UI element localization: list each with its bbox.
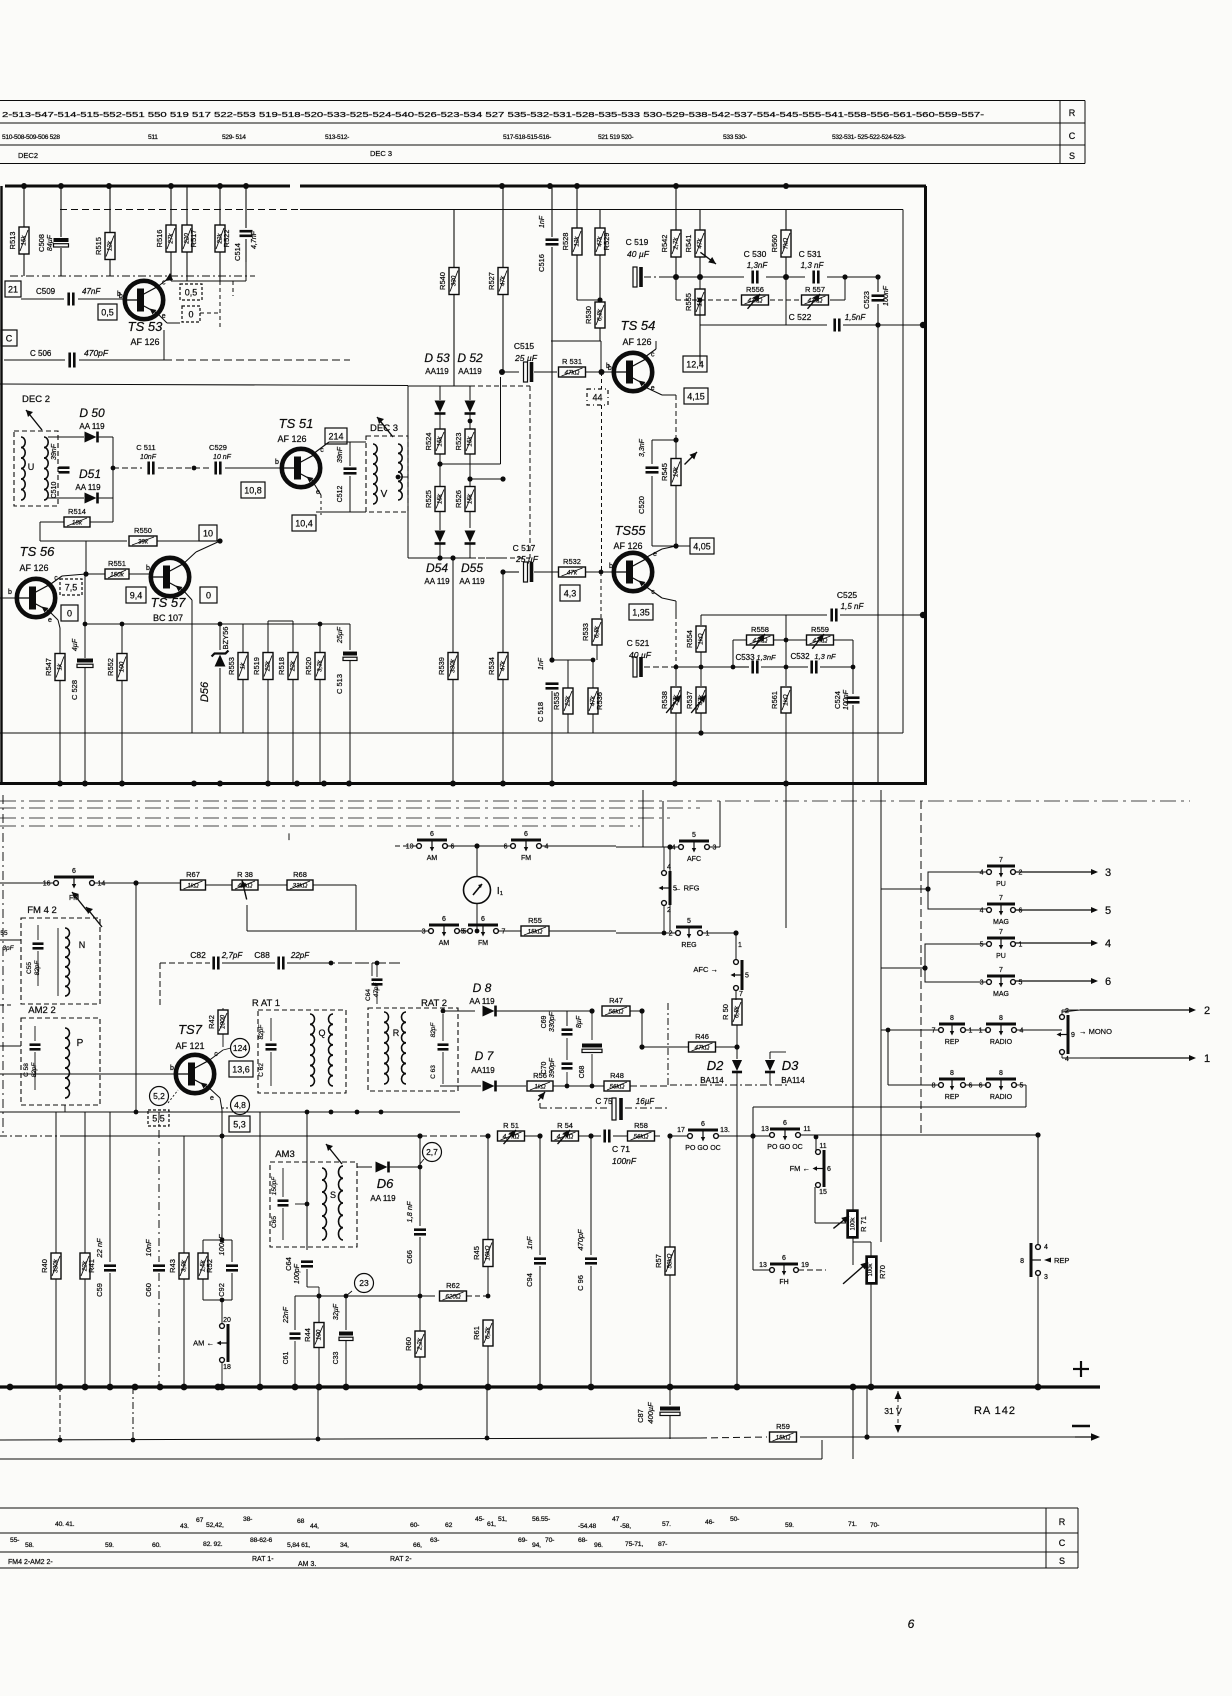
svg-text:R 50: R 50 <box>721 1004 730 1020</box>
svg-text:1nF: 1nF <box>538 657 545 670</box>
transformer RAT1 box <box>258 1010 346 1093</box>
svg-text:R550: R550 <box>134 526 152 535</box>
wire emitter TS51 <box>313 482 321 495</box>
bridge left wire <box>407 386 409 558</box>
junction on plus rail <box>1035 1384 1042 1391</box>
junction on plus rail <box>219 1384 226 1391</box>
wire collector TS57 <box>182 552 196 565</box>
svg-text:6,8k: 6,8k <box>734 1005 741 1018</box>
svg-text:1,5nF: 1,5nF <box>845 313 867 322</box>
svg-text:C520: C520 <box>637 496 646 514</box>
svg-text:40. 41.: 40. 41. <box>55 1521 75 1528</box>
svg-text:R44: R44 <box>303 1328 312 1342</box>
svg-text:470pF: 470pF <box>576 1229 585 1251</box>
svg-text:6: 6 <box>430 831 434 838</box>
svg-text:44,: 44, <box>310 1523 319 1530</box>
resistor R558 <box>747 635 774 645</box>
circle 2,7 <box>423 1143 442 1162</box>
wire x737 to bus <box>736 1085 738 1387</box>
svg-text:C 518: C 518 <box>536 702 545 722</box>
svg-text:6: 6 <box>827 1166 831 1173</box>
svg-text:330pF: 330pF <box>549 1011 556 1032</box>
svg-text:D51: D51 <box>79 467 101 481</box>
svg-text:FM ←: FM ← <box>790 1164 810 1173</box>
coil Q left <box>310 1014 315 1024</box>
svg-text:25 µF: 25 µF <box>514 353 538 363</box>
svg-text:C88: C88 <box>254 950 270 960</box>
svg-text:23: 23 <box>359 1278 369 1288</box>
svg-text:C92: C92 <box>217 1283 226 1297</box>
flag 13,6 <box>229 1061 253 1077</box>
junction on plus rail <box>82 1384 89 1391</box>
svg-text:R519: R519 <box>252 657 261 675</box>
capacitor C33 <box>345 1296 347 1330</box>
svg-text:AF 126: AF 126 <box>622 337 651 347</box>
svg-text:5: 5 <box>980 942 984 949</box>
resistor R531 <box>559 367 586 377</box>
svg-text:100pF: 100pF <box>294 1263 301 1284</box>
svg-text:R515: R515 <box>94 237 103 255</box>
svg-text:22pF: 22pF <box>290 951 310 960</box>
capacitor C63 <box>442 1014 444 1041</box>
arrow out 5 <box>1015 909 1096 911</box>
svg-text:AM ←: AM ← <box>193 1339 214 1348</box>
capacitor C524 <box>852 667 854 694</box>
wire base TS53 <box>21 298 64 300</box>
agc dash line <box>10 275 255 277</box>
svg-text:2: 2 <box>1204 1005 1210 1017</box>
junction on top bus <box>673 183 679 189</box>
resistor R48 <box>604 1081 630 1091</box>
resistor R551 <box>86 573 105 575</box>
svg-text:DEC2: DEC2 <box>18 151 38 160</box>
bridge bottom wire <box>408 557 470 559</box>
svg-text:3: 3 <box>1044 1274 1048 1281</box>
svg-text:67: 67 <box>196 1517 204 1524</box>
svg-text:R534: R534 <box>487 657 496 675</box>
svg-text:R542: R542 <box>660 235 669 253</box>
svg-text:R514: R514 <box>68 507 86 516</box>
svg-text:1kΩ: 1kΩ <box>534 1083 546 1090</box>
wire collector TS55 <box>645 586 662 598</box>
svg-text:7: 7 <box>932 1028 936 1035</box>
svg-text:C 63: C 63 <box>430 1065 437 1079</box>
svg-text:22nF: 22nF <box>283 1306 290 1324</box>
svg-text:8: 8 <box>950 1070 954 1077</box>
svg-text:5,84 61,: 5,84 61, <box>287 1542 310 1549</box>
svg-text:4: 4 <box>672 845 676 852</box>
svg-text:34,: 34, <box>340 1542 349 1549</box>
svg-text:15: 15 <box>819 1189 827 1196</box>
pot R38 <box>232 880 258 890</box>
resistor R46 <box>642 1046 688 1048</box>
svg-text:510-508-509-506 528: 510-508-509-506 528 <box>2 134 60 141</box>
svg-text:15k: 15k <box>467 436 474 447</box>
svg-text:R529: R529 <box>602 233 611 251</box>
transformer DEC3 box <box>366 436 408 512</box>
svg-text:R67: R67 <box>186 870 200 879</box>
svg-text:11: 11 <box>803 1126 810 1133</box>
coil Q right <box>329 1014 334 1024</box>
svg-text:100k: 100k <box>868 1262 874 1276</box>
plus sign <box>1073 1368 1089 1370</box>
svg-text:S: S <box>1059 1556 1065 1566</box>
svg-text:150pF: 150pF <box>271 1176 278 1195</box>
agc wire <box>258 1111 460 1113</box>
svg-text:R528: R528 <box>561 233 570 251</box>
svg-text:2-513-547-514-515-552-551 550: 2-513-547-514-515-552-551 550 519 517 52… <box>2 112 985 119</box>
svg-text:1: 1 <box>969 1028 973 1035</box>
resistor R513 <box>23 186 25 227</box>
vertical net x921 <box>920 801 922 1136</box>
svg-text:44: 44 <box>592 392 602 402</box>
resistor R44 <box>318 1296 320 1322</box>
svg-text:12,4: 12,4 <box>686 359 704 369</box>
resistor R54 <box>552 1131 579 1141</box>
svg-text:513-512-: 513-512- <box>325 134 349 141</box>
svg-text:5: 5 <box>745 973 749 980</box>
svg-text:R59: R59 <box>776 1422 790 1431</box>
svg-text:51,: 51, <box>498 1516 507 1523</box>
svg-text:0,5: 0,5 <box>185 287 198 297</box>
svg-text:16: 16 <box>43 881 51 888</box>
svg-text:59.: 59. <box>105 1542 114 1549</box>
svg-text:N: N <box>79 940 86 950</box>
svg-text:470pF: 470pF <box>84 348 109 358</box>
junction on plus rail <box>157 1384 164 1391</box>
svg-text:C: C <box>6 333 13 343</box>
svg-text:I₁: I₁ <box>497 886 504 897</box>
transistor TS51 <box>282 449 320 487</box>
svg-text:1: 1 <box>979 1028 983 1035</box>
svg-text:5,2: 5,2 <box>153 1091 165 1101</box>
svg-text:→ MONO: → MONO <box>1079 1027 1112 1036</box>
svg-text:39k: 39k <box>138 538 149 545</box>
switch AFC right <box>616 846 679 848</box>
svg-text:C66: C66 <box>405 1250 414 1264</box>
wire emitter TS55 <box>645 549 662 558</box>
resistor R554 <box>696 626 706 652</box>
svg-text:70-: 70- <box>870 1522 879 1529</box>
svg-text:60.: 60. <box>152 1542 161 1549</box>
svg-text:REP: REP <box>1054 1256 1069 1265</box>
switch FH <box>753 1269 770 1271</box>
coil U secondary <box>44 437 48 448</box>
wire D6 row <box>357 1166 372 1168</box>
svg-text:R41: R41 <box>87 1259 96 1273</box>
svg-text:b: b <box>146 565 150 572</box>
transistor TS57 <box>151 558 189 596</box>
svg-text:C515: C515 <box>514 341 535 351</box>
resistor R537 <box>700 667 702 686</box>
junction on plus rail <box>215 1384 222 1391</box>
svg-text:P: P <box>77 1038 84 1049</box>
svg-text:R68: R68 <box>293 870 307 879</box>
upper block bottom ground bus <box>0 782 927 785</box>
svg-text:38-: 38- <box>243 1516 252 1523</box>
resistor R40 <box>55 1112 57 1253</box>
capacitor C87 <box>669 1387 671 1405</box>
wire D52 to R523 <box>469 414 471 429</box>
svg-text:TS55: TS55 <box>614 523 646 538</box>
junction on plus rail <box>417 1384 424 1391</box>
svg-text:R530: R530 <box>584 306 593 324</box>
svg-text:532-531- 525-522-524-523-: 532-531- 525-522-524-523- <box>832 134 906 141</box>
agc wire 2 <box>0 1111 150 1113</box>
wire emitter TS53 <box>156 312 167 323</box>
wire C525 row <box>701 614 786 616</box>
svg-text:R551: R551 <box>108 559 126 568</box>
junction on plus rail <box>868 1384 875 1391</box>
resistor R530 <box>595 302 605 328</box>
svg-text:R43: R43 <box>168 1259 177 1273</box>
svg-text:6,2k: 6,2k <box>485 1326 492 1339</box>
svg-text:17: 17 <box>677 1127 685 1134</box>
vertical net x786 lower <box>785 783 787 928</box>
svg-text:12k: 12k <box>107 240 114 251</box>
svg-text:R554: R554 <box>685 630 694 648</box>
switch MAG 1 <box>987 908 992 913</box>
resistor R529 <box>599 209 601 228</box>
resistor R539 <box>452 558 454 652</box>
resistor R536 <box>588 688 598 714</box>
wire meter to reg <box>476 903 478 927</box>
wire mono 1 <box>1062 1010 1080 1012</box>
transformer FM42 box <box>21 918 100 1004</box>
diode D53 <box>435 401 446 413</box>
svg-text:69-: 69- <box>518 1537 527 1544</box>
svg-text:e: e <box>210 1095 214 1102</box>
svg-text:C87: C87 <box>636 1409 645 1423</box>
svg-text:58kΩ: 58kΩ <box>667 1253 674 1268</box>
vertical net x853 <box>852 783 854 1210</box>
svg-text:MAG: MAG <box>993 919 1009 926</box>
coil U primary <box>21 437 25 448</box>
svg-text:REP: REP <box>945 1039 960 1046</box>
svg-text:330k: 330k <box>53 1258 60 1273</box>
wire D53 to R524 <box>439 414 441 429</box>
svg-text:R 38: R 38 <box>237 870 253 879</box>
junction on top bus <box>106 183 112 189</box>
junction on bottom bus <box>119 781 125 787</box>
svg-text:7: 7 <box>999 929 1003 936</box>
wire collector net TS53 <box>171 280 220 282</box>
pot R71 <box>847 1210 858 1238</box>
capacitor C517 <box>524 562 528 582</box>
svg-text:7: 7 <box>739 991 743 998</box>
svg-text:1kΩ: 1kΩ <box>187 882 199 889</box>
svg-text:10kΩ: 10kΩ <box>485 1245 492 1260</box>
svg-text:C529: C529 <box>209 443 227 452</box>
coil V primary <box>373 444 377 454</box>
node R51 row <box>420 1135 489 1137</box>
svg-text:R560: R560 <box>770 235 779 253</box>
switch RADIO 1 <box>986 1028 991 1033</box>
svg-text:18: 18 <box>223 1364 231 1371</box>
svg-text:88-62-6: 88-62-6 <box>250 1537 272 1544</box>
svg-text:C510: C510 <box>51 482 58 499</box>
junction on plus rail <box>850 1384 857 1391</box>
svg-text:I: I <box>288 832 291 842</box>
svg-text:C 96: C 96 <box>576 1275 585 1291</box>
svg-text:AA119: AA119 <box>425 367 449 376</box>
svg-text:BC 107: BC 107 <box>153 613 183 623</box>
minus arrow <box>1075 1436 1098 1438</box>
svg-text:1: 1 <box>1204 1053 1210 1065</box>
svg-text:RADIO: RADIO <box>990 1094 1013 1101</box>
svg-text:10: 10 <box>203 528 213 538</box>
wire emitter TS56 net <box>84 574 86 624</box>
svg-text:R58: R58 <box>634 1121 648 1130</box>
wire C521 row <box>676 666 733 668</box>
second return line <box>0 1458 822 1460</box>
dash bus line 1 <box>0 800 1190 802</box>
capacitor C68 <box>591 1011 593 1040</box>
junction on top bus <box>21 183 27 189</box>
svg-text:3pF: 3pF <box>2 945 14 952</box>
svg-text:RADIO: RADIO <box>990 1039 1013 1046</box>
svg-text:10nF: 10nF <box>140 454 157 461</box>
wires REP rows <box>888 1029 939 1031</box>
svg-text:330k: 330k <box>450 658 457 673</box>
inner rail right drop <box>902 210 904 734</box>
resistor R532 <box>559 567 586 577</box>
svg-text:1kΩ: 1kΩ <box>783 694 790 706</box>
wire R558 row <box>733 639 746 641</box>
pot R56 <box>527 1081 553 1091</box>
svg-text:b: b <box>275 459 279 466</box>
wire R556 row <box>676 299 740 301</box>
junction on plus rail <box>57 1384 64 1391</box>
switch AM top <box>395 845 416 847</box>
capacitor C60 <box>158 1112 160 1262</box>
wire R555 to base <box>660 363 700 365</box>
wire C520 top <box>652 439 676 441</box>
svg-text:5: 5 <box>692 832 696 839</box>
svg-text:D 53: D 53 <box>424 351 450 365</box>
svg-text:82pF: 82pF <box>258 1024 265 1040</box>
resistor R55 <box>521 926 549 936</box>
plus rail <box>0 1385 1100 1388</box>
svg-text:20: 20 <box>223 1317 231 1324</box>
svg-text:C61: C61 <box>283 1351 290 1364</box>
svg-text:68: 68 <box>297 1518 305 1525</box>
svg-text:8: 8 <box>1020 1258 1024 1265</box>
svg-text:1M: 1M <box>697 297 704 307</box>
svg-text:-54.48: -54.48 <box>578 1523 596 1530</box>
bridge mid tap <box>440 463 501 465</box>
wire D2 D3 <box>670 1084 790 1086</box>
capacitor C508 <box>60 186 62 237</box>
transistor TS7 <box>176 1055 214 1093</box>
svg-text:39nF: 39nF <box>51 443 58 460</box>
svg-text:56kΩ: 56kΩ <box>634 1133 649 1140</box>
svg-text:C 506: C 506 <box>30 349 52 358</box>
capacitor C94 <box>539 1136 541 1255</box>
svg-text:5,3: 5,3 <box>233 1119 246 1129</box>
svg-text:C 521: C 521 <box>627 638 650 648</box>
svg-text:R545: R545 <box>660 463 669 481</box>
svg-text:47k: 47k <box>567 569 578 576</box>
wire collector TS51 <box>313 442 329 454</box>
wire D7 row <box>440 1085 481 1087</box>
resistor R550 <box>86 540 127 542</box>
svg-text:100nF: 100nF <box>217 1234 226 1256</box>
svg-text:3,3nF: 3,3nF <box>639 438 646 457</box>
wire R71 bottom <box>852 1238 854 1265</box>
terminal box 21 <box>5 281 21 297</box>
svg-text:55-: 55- <box>10 1537 19 1544</box>
wire pot drop <box>246 905 248 931</box>
flag 43 <box>560 585 580 601</box>
svg-text:27k: 27k <box>168 233 175 245</box>
svg-text:56.55-: 56.55- <box>532 1516 550 1523</box>
svg-text:AF 126: AF 126 <box>130 337 159 347</box>
svg-text:D55: D55 <box>461 561 483 575</box>
svg-text:58.: 58. <box>25 1542 34 1549</box>
wire to REP switch <box>816 1134 1038 1136</box>
svg-text:TS 57: TS 57 <box>151 595 186 610</box>
svg-text:R518: R518 <box>277 657 286 675</box>
resistor R559 <box>807 635 834 645</box>
svg-text:4µF: 4µF <box>72 638 79 651</box>
svg-text:6: 6 <box>782 1255 786 1262</box>
junction on bottom bus <box>57 781 63 787</box>
svg-text:U: U <box>28 462 35 472</box>
resistor R553 <box>242 624 244 652</box>
svg-text:C 513: C 513 <box>335 674 344 694</box>
svg-text:PU: PU <box>996 881 1006 888</box>
svg-text:RAT 2-: RAT 2- <box>390 1556 412 1563</box>
resistor R540 <box>453 209 455 267</box>
switch AFC low <box>734 960 739 965</box>
svg-text:R523: R523 <box>454 433 463 451</box>
junction on bottom bus <box>217 781 223 787</box>
wire 23 row <box>295 1295 435 1297</box>
wire D8 row <box>443 1010 475 1012</box>
switch FM fh <box>815 1137 817 1150</box>
svg-text:AA 119: AA 119 <box>370 1194 396 1203</box>
wire R528 R529 join <box>577 299 600 301</box>
svg-text:84µF: 84µF <box>47 234 54 251</box>
svg-text:C55: C55 <box>26 962 33 974</box>
flag 0 TS56 <box>61 605 78 621</box>
svg-text:R522: R522 <box>222 230 231 248</box>
junction on top bus <box>168 183 174 189</box>
svg-text:AM3: AM3 <box>275 1149 295 1160</box>
resistor R526 <box>465 487 475 512</box>
svg-text:R520: R520 <box>304 657 313 675</box>
diode D2 <box>736 1047 738 1059</box>
resistor R527 <box>502 186 504 267</box>
svg-text:330: 330 <box>451 275 458 286</box>
svg-text:R525: R525 <box>424 490 433 508</box>
transformer AM3 box <box>270 1162 357 1247</box>
switch RADIO 2 <box>986 1083 991 1088</box>
svg-text:5: 5 <box>461 929 465 936</box>
wire C512 bottom <box>350 511 366 513</box>
svg-text:57.: 57. <box>662 1521 671 1528</box>
flag 0 dashed <box>182 306 200 322</box>
dash bus line 3 <box>0 817 670 819</box>
svg-text:22k: 22k <box>565 695 572 707</box>
resistor R552 <box>121 624 123 654</box>
wire AFC drop <box>669 847 671 931</box>
svg-text:R: R <box>1059 1517 1066 1527</box>
vertical net x881 <box>880 790 882 1242</box>
inner supply rail <box>60 209 300 211</box>
svg-text:70-: 70- <box>545 1537 554 1544</box>
